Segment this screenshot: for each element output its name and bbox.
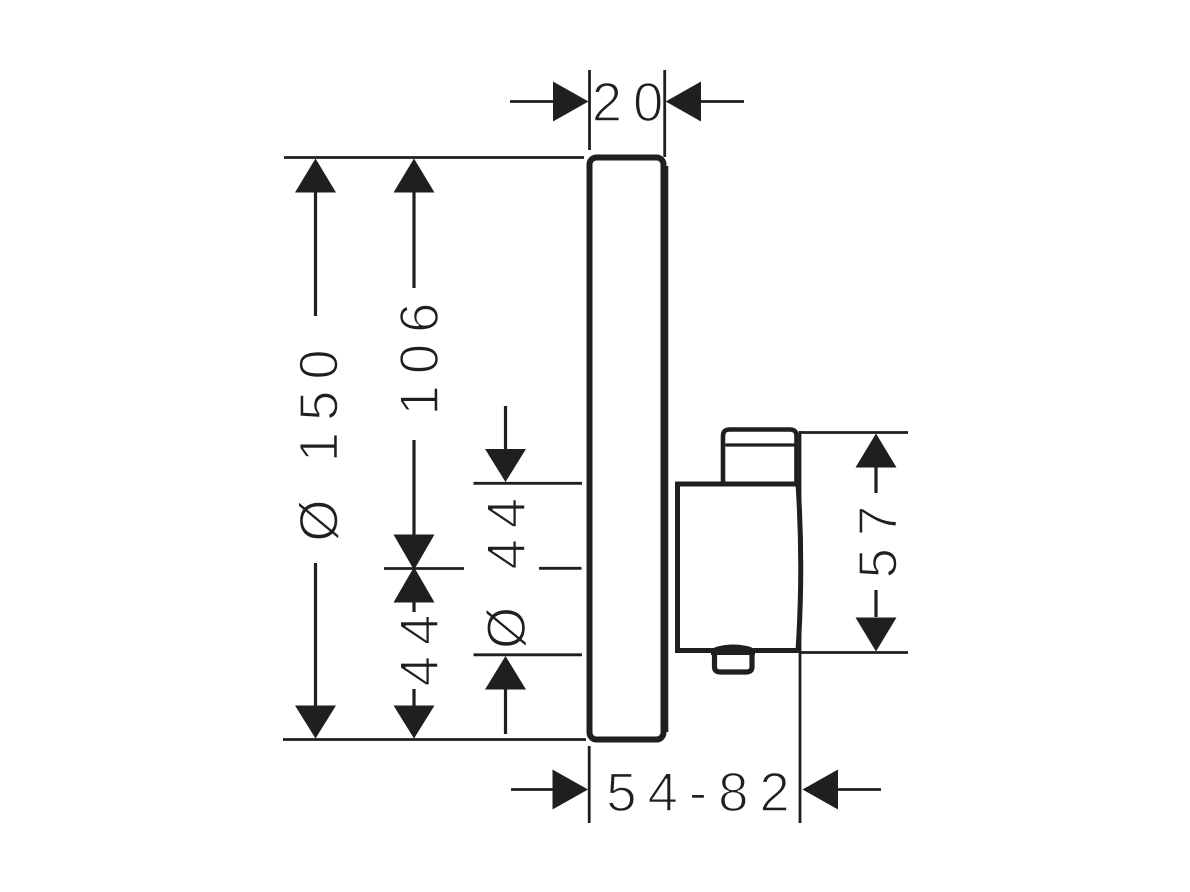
arrowhead down <box>295 706 336 739</box>
dim line tail left <box>510 100 556 103</box>
extension line 20-dim left vertical <box>588 70 591 150</box>
dim line tail left <box>511 788 555 791</box>
stem upper <box>314 192 317 316</box>
arrowhead down at centre <box>394 535 435 571</box>
stem upper <box>412 192 415 288</box>
arrowhead down <box>394 706 435 739</box>
svg-text:106: 106 <box>389 292 450 416</box>
extension line bottom of body (right, horizontal) <box>799 651 908 654</box>
dimension 54-82 (bottom) <box>511 762 881 823</box>
dimension 57 (right) <box>848 434 909 652</box>
valve body (side view) <box>678 484 801 651</box>
arrowhead right (points left) <box>803 770 839 810</box>
extension line top of handle (right, horizontal) <box>799 431 908 434</box>
stem lower <box>314 563 317 706</box>
extension line bottom of plate (left, horizontal) <box>283 738 586 741</box>
extension line top of plate (left, horizontal) <box>284 156 584 159</box>
svg-text:57: 57 <box>848 494 909 579</box>
dim line tail right <box>838 788 881 791</box>
svg-text:Ø 44: Ø 44 <box>476 487 537 649</box>
arrowhead left (points right) <box>553 82 589 122</box>
arrowhead down <box>856 618 897 652</box>
stem lower <box>412 689 415 706</box>
tick bottom <box>474 653 583 656</box>
arrowhead up <box>295 159 336 193</box>
dim line tail right <box>699 100 744 103</box>
arrowhead left (points right) <box>553 770 589 810</box>
handle (top control knob, side view) <box>723 430 797 487</box>
stem upper <box>412 602 415 612</box>
centre tick of 106/44 junction <box>384 567 464 570</box>
arrowhead up from centre <box>394 567 435 603</box>
handle inner groove line <box>726 443 795 446</box>
arrowhead down <box>485 449 526 482</box>
dimension 44 (left) <box>389 567 450 739</box>
arrowhead up <box>485 656 526 690</box>
svg-text:Ø 150: Ø 150 <box>289 338 350 541</box>
stem lower <box>412 440 415 535</box>
tick top <box>474 482 583 485</box>
stem upper <box>504 406 507 450</box>
stem lower <box>504 689 507 734</box>
centre tick right piece (beside &#216;44 label) <box>539 567 582 570</box>
stem upper <box>874 467 877 493</box>
plate front face contour line <box>666 166 669 732</box>
extension line 54-82 left vertical <box>588 746 591 823</box>
dimension Ø150 <box>289 159 350 739</box>
arrowhead up <box>394 159 435 193</box>
dimension 20 <box>510 72 744 133</box>
extension line 20-dim right vertical <box>663 70 666 157</box>
arrowhead up <box>856 434 897 468</box>
extension line 54-82 right vertical (full height along body edge) <box>799 431 802 823</box>
body bottom line across tab <box>711 649 755 656</box>
svg-text:54-82: 54-82 <box>606 762 800 823</box>
stem lower <box>874 590 877 617</box>
svg-text:20: 20 <box>592 72 675 133</box>
dimension Ø44 (body) <box>474 406 583 734</box>
dimension 106 <box>389 159 450 571</box>
svg-text:44: 44 <box>389 604 450 687</box>
arrowhead right (points left) <box>666 82 701 122</box>
bottom tab (stop button) <box>711 647 755 672</box>
escutcheon plate (side profile) <box>590 158 664 740</box>
